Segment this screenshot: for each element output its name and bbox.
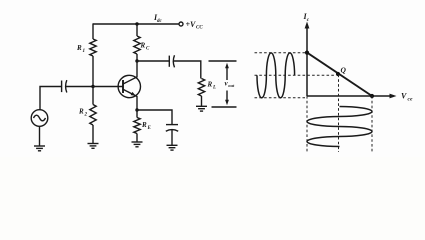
dashed line Ic max level xyxy=(255,52,306,54)
node collector-rail junction xyxy=(135,22,138,25)
wire C2 to RL xyxy=(174,61,201,79)
svg-text:CC: CC xyxy=(196,26,203,31)
wire Rc bottom lead xyxy=(136,54,138,61)
wire collector lead xyxy=(136,61,138,77)
node base junction xyxy=(91,85,94,88)
wire R2 leads xyxy=(92,87,94,144)
wire R1 top lead xyxy=(92,23,94,39)
wire RL bottom lead xyxy=(201,96,203,106)
dashed line Ic zero level xyxy=(255,97,306,99)
label R2 xyxy=(78,108,88,118)
svg-text:E: E xyxy=(147,126,152,131)
dashed line Q vertical xyxy=(338,75,340,153)
label Rc xyxy=(140,42,151,52)
svg-text:R: R xyxy=(78,108,84,116)
svg-text:R: R xyxy=(141,121,147,129)
label Ic xyxy=(303,12,310,23)
node emitter xyxy=(135,108,138,111)
svg-text:L: L xyxy=(212,86,216,91)
terminal +Vcc xyxy=(179,22,183,26)
svg-text:1: 1 xyxy=(83,49,86,54)
ground source xyxy=(34,146,45,151)
wire Rc top lead xyxy=(136,24,138,36)
waveform output collector voltage sine xyxy=(307,107,372,147)
wire base xyxy=(93,86,123,88)
svg-text:ce: ce xyxy=(408,97,413,103)
svg-text:R: R xyxy=(207,81,213,89)
svg-text:V: V xyxy=(401,92,407,101)
axis Ic vertical xyxy=(305,22,310,97)
vout arrow xyxy=(225,63,229,106)
resistor RE xyxy=(134,118,140,134)
dashed line Q level xyxy=(255,74,336,76)
svg-text:R: R xyxy=(76,44,82,52)
wire C1 to base node xyxy=(66,86,93,88)
wire vout top tick xyxy=(209,60,237,62)
capacitor C1 input coupling xyxy=(62,80,67,92)
wire bypass cap bottom lead xyxy=(171,130,173,146)
svg-text:R: R xyxy=(140,42,146,50)
ground R2 xyxy=(88,144,99,149)
source AC input xyxy=(31,110,48,127)
node cutoff point xyxy=(370,94,374,98)
wire vout bottom tick xyxy=(212,106,237,108)
dashed line Vce max vertical xyxy=(371,96,373,152)
svg-text:out: out xyxy=(228,83,235,88)
resistor RL xyxy=(198,79,204,97)
node collector xyxy=(135,59,138,62)
waveform input base current sine xyxy=(257,53,295,98)
wire RE leads xyxy=(136,110,138,142)
svg-text:+V: +V xyxy=(186,20,197,29)
svg-text:2: 2 xyxy=(84,113,88,118)
transistor Q1 xyxy=(118,75,140,97)
label R1 xyxy=(76,44,85,54)
svg-text:dc: dc xyxy=(157,19,163,24)
wire emitter to bypass cap xyxy=(137,110,172,124)
resistor R1 xyxy=(90,39,96,56)
label Idc current xyxy=(153,13,163,24)
wire R1 bottom lead xyxy=(92,56,94,87)
dashed line Vce axis extension down xyxy=(306,96,308,152)
label Vce xyxy=(401,92,413,103)
wire input top from source to C1 xyxy=(40,87,61,110)
ground CE xyxy=(167,145,178,150)
resistor R2 xyxy=(90,105,96,126)
label Q xyxy=(341,66,347,75)
svg-text:Q: Q xyxy=(341,66,347,75)
wire emitter lead xyxy=(136,96,138,110)
label RL xyxy=(207,81,217,91)
wire top supply rail xyxy=(93,23,179,25)
label vout xyxy=(225,80,236,89)
wire collector node to C2 xyxy=(137,60,169,62)
capacitor C2 output coupling xyxy=(169,55,174,67)
label +Vcc xyxy=(186,20,204,31)
node saturation point xyxy=(305,51,309,55)
ground RL xyxy=(196,106,207,111)
node Q point xyxy=(336,72,340,76)
load line xyxy=(307,53,372,96)
resistor Rc xyxy=(134,36,140,54)
wire source bottom lead xyxy=(39,126,41,146)
ground RE xyxy=(132,142,143,147)
capacitor CE bypass xyxy=(166,125,178,132)
label RE xyxy=(141,121,152,131)
axis Vce horizontal xyxy=(307,94,397,99)
